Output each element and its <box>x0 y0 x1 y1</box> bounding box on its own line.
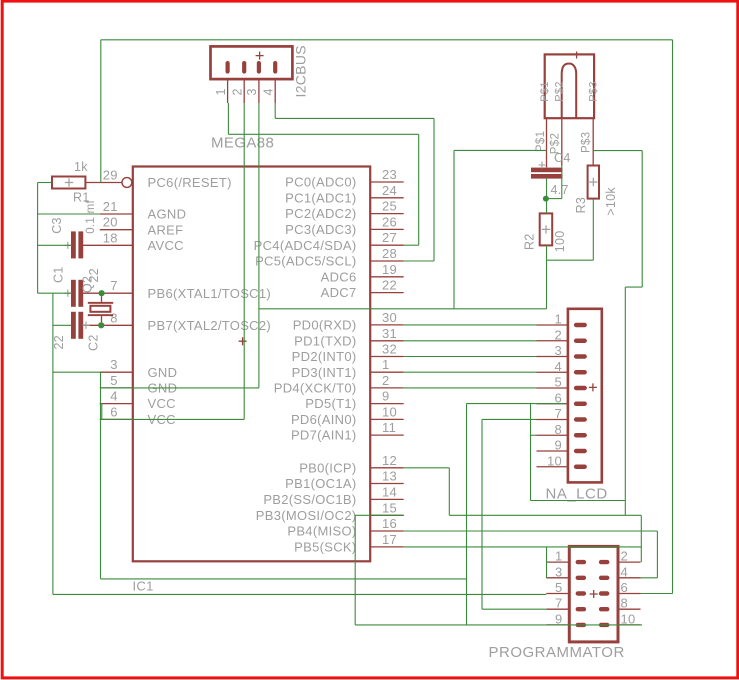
wire <box>100 403 102 405</box>
wire <box>404 371 537 373</box>
wire <box>641 593 673 595</box>
pin 13 PB1(OC1A) <box>370 483 404 485</box>
wire <box>38 182 52 184</box>
svg-text:7: 7 <box>110 278 118 293</box>
pin 23 PC0(ADC0) <box>370 181 404 183</box>
svg-text:15: 15 <box>382 500 397 515</box>
capacitor C2 22 <box>71 312 76 339</box>
junction on PB7/XTAL2 node <box>98 322 104 328</box>
svg-text:PD1(TXD): PD1(TXD) <box>294 333 356 348</box>
wire <box>672 40 674 594</box>
wire <box>547 259 594 261</box>
svg-text:PB0(ICP): PB0(ICP) <box>299 460 356 475</box>
wire <box>37 183 39 294</box>
wire <box>404 260 434 262</box>
wire <box>275 117 434 119</box>
svg-text:P$3: P$3 <box>588 81 600 101</box>
wire <box>259 308 546 310</box>
svg-text:GND: GND <box>148 365 178 380</box>
junction C4/R2 node <box>543 196 549 202</box>
NA_LCD pad pin 4 <box>574 370 587 374</box>
svg-text:PROGRAMMATOR: PROGRAMMATOR <box>489 644 625 661</box>
wire <box>448 468 450 516</box>
svg-text:C4: C4 <box>554 151 571 165</box>
svg-text:27: 27 <box>382 230 397 245</box>
pin 8 PB7(XTAL2/TOSC2) <box>83 324 133 326</box>
svg-text:10: 10 <box>382 404 397 419</box>
IC U1 MEGA88 body <box>133 167 370 562</box>
svg-text:2: 2 <box>554 327 562 342</box>
PROGRAMMATOR pad pins 5/6 <box>576 591 587 595</box>
svg-text:6: 6 <box>110 404 118 419</box>
resistor R1 1k <box>52 177 85 189</box>
wire <box>546 245 548 308</box>
pin 9 PD5(T1) <box>370 403 404 405</box>
IR receiver top tick <box>576 52 578 59</box>
pin 10 PD6(AIN0) <box>370 418 404 420</box>
wire <box>482 608 546 610</box>
svg-text:24: 24 <box>382 183 397 198</box>
svg-text:PB7(XTAL2/TOSC2): PB7(XTAL2/TOSC2) <box>148 318 272 333</box>
svg-text:AGND: AGND <box>148 207 187 222</box>
wire <box>102 418 244 420</box>
svg-text:PB2(SS/OC1B): PB2(SS/OC1B) <box>263 492 356 507</box>
pin 15 PB3(MOSI/OC2) <box>370 514 404 516</box>
wire <box>641 151 643 288</box>
NA_LCD pad pin 2 <box>574 339 587 343</box>
svg-text:PD2(INT0): PD2(INT0) <box>292 349 357 364</box>
svg-text:PD5(T1): PD5(T1) <box>305 396 356 411</box>
svg-text:2: 2 <box>230 88 244 95</box>
pin 22 ADC7 <box>370 292 404 294</box>
svg-text:22: 22 <box>382 278 397 293</box>
svg-text:PB4(MISO): PB4(MISO) <box>287 524 356 539</box>
svg-text:PC5(ADC5/SCL): PC5(ADC5/SCL) <box>255 254 356 269</box>
svg-text:PD0(RXD): PD0(RXD) <box>293 318 357 333</box>
svg-text:100: 100 <box>553 230 567 252</box>
svg-text:19: 19 <box>382 262 397 277</box>
pin 30 PD0(RXD) <box>370 324 404 326</box>
svg-text:MEGA88: MEGA88 <box>211 135 274 152</box>
wire <box>53 371 101 373</box>
svg-text:PC0(ADC0): PC0(ADC0) <box>285 175 356 190</box>
svg-text:9: 9 <box>555 611 563 626</box>
wire <box>592 199 594 261</box>
svg-text:0.1 mf: 0.1 mf <box>85 200 97 234</box>
NA_LCD pad pin 3 <box>574 354 587 358</box>
wire <box>418 134 420 245</box>
svg-text:P$2: P$2 <box>553 81 565 101</box>
svg-text:2: 2 <box>621 549 629 564</box>
svg-text:R2: R2 <box>523 233 537 250</box>
wire <box>546 179 548 214</box>
svg-text:5: 5 <box>554 375 562 390</box>
crystal Q2 <box>88 302 113 304</box>
pin 32 PD2(INT0) <box>370 356 404 358</box>
wire <box>624 287 626 515</box>
svg-text:9: 9 <box>554 438 562 453</box>
pin 20 AREF <box>100 229 133 231</box>
svg-text:9: 9 <box>382 389 390 404</box>
pin 28 PC5(ADC5/SCL) <box>370 260 404 262</box>
wire <box>38 292 72 294</box>
wire <box>100 372 102 579</box>
svg-text:1k: 1k <box>74 160 88 174</box>
svg-text:AVCC: AVCC <box>148 238 184 253</box>
wire <box>355 624 642 626</box>
pin 4 VCC <box>100 403 133 405</box>
svg-text:31: 31 <box>382 326 397 341</box>
svg-text:VCC: VCC <box>148 396 176 411</box>
wire <box>228 133 418 135</box>
svg-text:3: 3 <box>245 88 259 95</box>
svg-text:PC1(ADC1): PC1(ADC1) <box>285 190 356 205</box>
svg-text:17: 17 <box>382 532 397 547</box>
resistor R2 100 <box>540 213 553 245</box>
wire <box>258 103 260 388</box>
pin 1 PD3(INT1) <box>370 371 404 373</box>
svg-text:6: 6 <box>621 580 629 595</box>
pin 7 PB6(XTAL1/TOSC1) <box>83 292 133 294</box>
wire <box>625 286 642 288</box>
svg-text:Q2: Q2 <box>81 276 95 293</box>
NA_LCD pad pin 6 <box>574 402 587 406</box>
wire <box>404 530 658 532</box>
pin 3 GND <box>100 371 133 373</box>
svg-text:7: 7 <box>555 596 563 611</box>
PROGRAMMATOR pad pins 7/8 <box>576 607 587 611</box>
svg-text:5: 5 <box>110 373 118 388</box>
svg-text:6: 6 <box>554 390 562 405</box>
svg-text:PB3(MOSI/OC2): PB3(MOSI/OC2) <box>256 508 357 523</box>
wire <box>404 340 537 342</box>
capacitor C3 0.1mf <box>71 231 76 258</box>
svg-text:1: 1 <box>554 312 562 327</box>
svg-text:5: 5 <box>555 580 563 595</box>
wire <box>593 150 642 152</box>
wire <box>53 324 71 326</box>
wire <box>449 514 641 516</box>
svg-text:IC1: IC1 <box>133 579 154 594</box>
pin 17 PB5(SCK) <box>370 546 404 548</box>
wire <box>641 577 658 579</box>
resistor R3 10k <box>588 166 599 199</box>
svg-text:PC4(ADC4/SDA): PC4(ADC4/SDA) <box>254 238 357 253</box>
wire <box>404 244 419 246</box>
svg-text:P$3: P$3 <box>581 132 593 153</box>
svg-text:ADC7: ADC7 <box>321 285 357 300</box>
svg-text:1: 1 <box>214 88 228 95</box>
svg-text:25: 25 <box>382 199 397 214</box>
svg-text:P$1: P$1 <box>539 81 551 101</box>
svg-text:PC2(ADC2): PC2(ADC2) <box>285 206 356 221</box>
IR receiver pin P$3 <box>592 118 594 165</box>
wire <box>404 467 450 469</box>
wire <box>547 198 562 200</box>
svg-text:3: 3 <box>110 357 118 372</box>
pin 19 ADC6 <box>370 276 404 278</box>
NA_LCD pad pin 10 <box>574 465 587 469</box>
pin 21 AGND <box>100 213 133 215</box>
pin 24 PC1(ADC1) <box>370 197 404 199</box>
wire <box>466 404 468 625</box>
svg-text:4: 4 <box>621 564 629 579</box>
I2CBUS pad pin 3 <box>257 61 261 74</box>
wire <box>454 149 547 151</box>
pin 14 PB2(SS/OC1B) <box>370 498 404 500</box>
pin 12 PB0(ICP) <box>370 467 404 469</box>
wire <box>404 356 537 358</box>
svg-text:PC3(ADC3): PC3(ADC3) <box>285 222 356 237</box>
NA_LCD pad pin 5 <box>574 386 587 390</box>
wire <box>531 500 626 502</box>
connector PROGRAMMATOR body <box>569 546 618 642</box>
NA_LCD pad pin 9 <box>574 449 587 453</box>
svg-text:10: 10 <box>621 611 636 626</box>
connector NA_LCD body <box>568 309 602 483</box>
svg-text:16: 16 <box>382 516 397 531</box>
pin 26 PC3(ADC3) <box>370 228 404 230</box>
svg-text:C2: C2 <box>87 334 101 351</box>
wire <box>38 213 100 215</box>
wire <box>530 404 532 501</box>
pin 6 VCC <box>100 418 133 420</box>
pin 25 PC2(ADC2) <box>370 213 404 215</box>
wire <box>467 403 565 405</box>
connector J1 I2CBUS body <box>211 46 293 79</box>
capacitor C1 22 <box>71 280 76 307</box>
wire <box>355 514 404 516</box>
wire <box>227 103 229 134</box>
svg-text:20: 20 <box>103 215 118 230</box>
svg-text:32: 32 <box>382 342 397 357</box>
svg-text:I2CBUS: I2CBUS <box>293 45 309 97</box>
pin 31 PD1(TXD) <box>370 340 404 342</box>
wire <box>243 103 245 419</box>
PROGRAMMATOR pad pins 1/2 <box>576 560 587 564</box>
pin 16 PB4(MISO) <box>370 530 404 532</box>
svg-text:3: 3 <box>554 343 562 358</box>
PROGRAMMATOR pad pins 9/10 <box>576 623 587 627</box>
svg-text:10: 10 <box>547 453 562 468</box>
wire <box>531 434 537 436</box>
svg-text:1: 1 <box>555 549 563 564</box>
svg-text:P$1: P$1 <box>535 131 547 152</box>
junction on PB6/XTAL1 node <box>99 290 105 296</box>
wire <box>100 40 102 183</box>
svg-text:PD6(AIN0): PD6(AIN0) <box>291 412 357 427</box>
wire <box>453 150 455 308</box>
wire <box>640 515 642 562</box>
wire <box>482 418 537 420</box>
svg-text:4: 4 <box>554 359 562 374</box>
svg-text:4: 4 <box>110 389 118 404</box>
svg-text:4.7: 4.7 <box>551 183 569 197</box>
svg-text:PB6(XTAL1/TOSC1): PB6(XTAL1/TOSC1) <box>148 286 272 301</box>
svg-text:PD4(XCK/T0): PD4(XCK/T0) <box>274 381 357 396</box>
svg-text:13: 13 <box>382 469 397 484</box>
svg-text:1: 1 <box>382 357 390 372</box>
svg-text:7: 7 <box>554 406 562 421</box>
svg-text:3: 3 <box>555 564 563 579</box>
svg-text:PB1(OC1A): PB1(OC1A) <box>285 476 356 491</box>
wire <box>656 531 658 578</box>
svg-text:>10k: >10k <box>604 187 618 216</box>
svg-text:30: 30 <box>382 310 397 325</box>
pin 18 AVCC <box>83 244 133 246</box>
wire <box>561 166 563 199</box>
NA_LCD pad pin 7 <box>574 417 587 421</box>
svg-text:29: 29 <box>103 168 118 183</box>
wire <box>52 293 54 594</box>
svg-text:2: 2 <box>382 373 390 388</box>
wire <box>404 546 642 548</box>
pin 2 PD4(XCK/T0) <box>370 387 404 389</box>
I2CBUS pad pin 2 <box>242 61 246 74</box>
wire <box>354 515 356 625</box>
wire <box>101 404 103 420</box>
svg-text:C1: C1 <box>52 266 66 283</box>
svg-text:PB5(SCK): PB5(SCK) <box>294 540 356 555</box>
svg-text:AREF: AREF <box>148 222 184 237</box>
svg-text:PD3(INT1): PD3(INT1) <box>292 365 357 380</box>
pin 29 PC6(/RESET) <box>85 182 122 184</box>
NA_LCD pad pin 1 <box>574 323 587 327</box>
svg-text:26: 26 <box>382 214 397 229</box>
IR receiver dome <box>562 64 577 119</box>
I2CBUS pad pin 4 <box>273 61 277 74</box>
IR receiver U2 body <box>545 54 594 118</box>
wire <box>546 547 548 578</box>
capacitor C4 4.7 <box>531 168 563 173</box>
wire <box>101 578 467 580</box>
wire <box>481 419 483 609</box>
svg-text:18: 18 <box>103 230 118 245</box>
wire <box>38 244 72 246</box>
svg-text:4: 4 <box>261 88 275 95</box>
svg-text:14: 14 <box>382 484 397 499</box>
svg-text:23: 23 <box>382 167 397 182</box>
wire <box>404 324 537 326</box>
wire <box>101 39 673 41</box>
IC origin cross <box>239 337 247 345</box>
pin 11 PD7(AIN1) <box>370 434 404 436</box>
svg-text:8: 8 <box>621 596 629 611</box>
IR receiver pin P$2 <box>561 118 563 165</box>
IR receiver pin P$1 <box>546 118 548 167</box>
svg-text:C3: C3 <box>50 217 64 234</box>
wire <box>53 593 546 595</box>
NA_LCD pad pin 8 <box>574 433 587 437</box>
svg-text:12: 12 <box>382 453 397 468</box>
wire <box>101 387 259 389</box>
svg-text:21: 21 <box>103 199 118 214</box>
svg-text:8: 8 <box>554 422 562 437</box>
I2CBUS pad pin 1 <box>226 61 230 74</box>
wire <box>433 118 435 261</box>
svg-text:PD7(AIN1): PD7(AIN1) <box>291 428 357 443</box>
svg-text:ADC6: ADC6 <box>321 269 357 284</box>
svg-text:22: 22 <box>52 335 66 350</box>
pin 5 GND <box>100 387 133 389</box>
PROGRAMMATOR pad pins 3/4 <box>576 576 587 580</box>
svg-text:PC6(/RESET): PC6(/RESET) <box>148 175 232 190</box>
svg-text:28: 28 <box>382 246 397 261</box>
wire <box>404 387 537 389</box>
pin 27 PC4(ADC4/SDA) <box>370 244 404 246</box>
wire <box>274 103 276 118</box>
svg-text:R3: R3 <box>574 197 588 214</box>
svg-text:11: 11 <box>382 420 396 435</box>
